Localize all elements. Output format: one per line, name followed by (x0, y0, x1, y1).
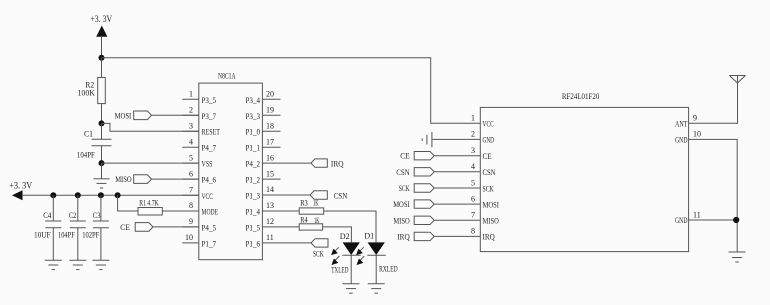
wire pin14 to CSN flag (262, 194, 310, 196)
C1 label (84, 130, 93, 139)
SCK label (313, 250, 324, 259)
svg-text:18: 18 (266, 121, 274, 130)
svg-text:IRQ: IRQ (331, 159, 344, 168)
svg-text:MODE: MODE (202, 208, 219, 217)
LED D1 (367, 243, 386, 284)
svg-text:P1_3: P1_3 (246, 192, 261, 201)
svg-text:P4_7: P4_7 (202, 144, 217, 153)
antenna E1 (729, 76, 745, 84)
net flag MOSI (RF) (414, 200, 480, 208)
RXLED label (379, 265, 398, 274)
U1 title N8C1A (218, 72, 236, 81)
svg-text:P1_0: P1_0 (246, 128, 261, 137)
svg-text:10: 10 (693, 130, 701, 139)
wire C1 to ground (101, 163, 103, 179)
svg-text:CSN: CSN (334, 191, 348, 200)
svg-text:P1_7: P1_7 (202, 239, 217, 248)
U2 right pin numbers (693, 114, 701, 220)
svg-text:RF24L01F20: RF24L01F20 (562, 92, 599, 101)
svg-text:P3_3: P3_3 (246, 112, 261, 121)
svg-text:P3_4: P3_4 (246, 96, 261, 105)
svg-text:MOSI: MOSI (115, 111, 132, 120)
svg-text:C3: C3 (93, 211, 101, 220)
svg-text:17: 17 (266, 137, 274, 146)
net flag IRQ (RF) (414, 232, 480, 240)
svg-text:11: 11 (693, 210, 701, 219)
capacitor C1 (92, 123, 112, 163)
wire R2 bottom (101, 104, 103, 124)
LED D2 (342, 243, 361, 284)
U2 left pin names (483, 120, 500, 242)
svg-text:D2: D2 (340, 232, 350, 241)
svg-text:MOSI: MOSI (393, 200, 410, 209)
wire junction to R2 (101, 58, 103, 78)
svg-text:7: 7 (189, 186, 193, 195)
C2 label (69, 211, 77, 220)
svg-text:9: 9 (693, 114, 697, 123)
svg-text:10: 10 (185, 233, 193, 242)
svg-text:4: 4 (189, 137, 193, 146)
wire R1 branch down (118, 195, 138, 211)
svg-text:1: 1 (471, 114, 475, 123)
TXLED label (331, 266, 348, 275)
svg-text:VCC: VCC (202, 192, 214, 201)
IRQ label (RF) (397, 232, 410, 241)
svg-text:7: 7 (471, 211, 475, 220)
svg-text:P1_5: P1_5 (246, 223, 261, 232)
node A junction top-left (99, 55, 105, 61)
svg-text:IRQ: IRQ (483, 233, 495, 242)
svg-text:RESET: RESET (202, 128, 221, 137)
U1 left pin numbers (185, 90, 193, 243)
U1 right pin stubs 20-11 (262, 99, 280, 179)
svg-text:MOSI: MOSI (483, 200, 500, 209)
MOSI label (115, 111, 132, 120)
MCU U1 N8C1A body (199, 83, 263, 260)
svg-text:C1: C1 (84, 130, 93, 139)
wire VSS pin5 (102, 162, 199, 164)
net flag IRQ (MCU) (311, 159, 327, 167)
svg-text:P4_6: P4_6 (202, 176, 217, 185)
svg-text:8: 8 (471, 227, 475, 236)
svg-text:4: 4 (471, 162, 475, 171)
U2 left pin numbers 1-8 (471, 114, 475, 236)
CE label (RF) (400, 152, 410, 161)
svg-text:1: 1 (189, 90, 193, 99)
svg-text:16: 16 (266, 153, 274, 162)
net flag MISO (MCU) (134, 175, 199, 184)
junction R1 branch (115, 192, 121, 198)
node C junction C1/VSS/gnd (99, 160, 105, 166)
power +3.3V bottom label (9, 181, 32, 191)
svg-text:P4_2: P4_2 (246, 160, 261, 169)
svg-text:TXLED: TXLED (331, 266, 348, 275)
net flag CE (RF) (414, 152, 480, 160)
junction pin11/rail (733, 217, 739, 223)
svg-text:3: 3 (189, 121, 193, 130)
svg-text:12: 12 (266, 217, 274, 226)
C3 value 102PF (82, 230, 100, 239)
svg-text:VSS: VSS (202, 160, 213, 169)
CSN label (334, 191, 348, 200)
svg-text:2: 2 (471, 130, 475, 139)
wire pin12 to R4 (262, 226, 299, 228)
wire pin13 to R3 (262, 210, 299, 212)
svg-text:104PF: 104PF (77, 151, 95, 160)
svg-text:P1_2: P1_2 (246, 176, 261, 185)
svg-text:8: 8 (189, 201, 193, 210)
svg-text:5: 5 (189, 153, 193, 162)
MOSI label (RF) (393, 200, 410, 209)
net flag CE (MCU) (135, 223, 199, 232)
RF module U2 RF24L01F20 body (480, 107, 688, 251)
CSN label (RF) (396, 168, 410, 177)
U2 title RF24L01F20 (562, 92, 599, 101)
svg-text:P1_1: P1_1 (246, 144, 261, 153)
ground under C2 (69, 260, 86, 269)
wire pin11 to SCK flag (262, 242, 311, 244)
ground under D1 (368, 284, 385, 293)
svg-text:SCK: SCK (399, 184, 410, 193)
svg-text:14: 14 (266, 185, 274, 194)
U1 left pin names (202, 96, 221, 249)
svg-text:IRQ: IRQ (397, 232, 410, 241)
U1 left pin stubs 1-10 (182, 99, 199, 243)
svg-text:1K: 1K (313, 199, 319, 208)
U2 right pin names (675, 120, 688, 226)
svg-text:CE: CE (120, 223, 130, 232)
MISO label (115, 175, 132, 184)
svg-text:VCC: VCC (483, 120, 494, 129)
svg-text:CSN: CSN (396, 168, 410, 177)
D2 label (340, 232, 350, 241)
sideways ground at RF pin2 (422, 132, 480, 147)
D1 label (364, 232, 374, 241)
svg-text:MISO: MISO (483, 217, 499, 226)
IRQ label (331, 159, 344, 168)
svg-text:6: 6 (471, 194, 475, 203)
svg-text:15: 15 (266, 169, 274, 178)
D1 emission arrows (357, 247, 365, 264)
power +3.3V top arrow symbol (97, 27, 107, 58)
svg-text:+3. 3V: +3. 3V (9, 181, 32, 191)
svg-text:1K: 1K (314, 216, 319, 225)
svg-text:P3_5: P3_5 (202, 96, 217, 105)
R3 label (300, 198, 308, 207)
svg-text:2: 2 (189, 106, 193, 115)
wire ANT pin9 to antenna (689, 83, 738, 123)
svg-text:CSN: CSN (483, 168, 496, 177)
wire +3.3V bottom rail to VCC pin7 (22, 194, 199, 196)
D2 emission arrows (332, 247, 340, 264)
svg-text:GND: GND (483, 136, 495, 145)
svg-text:11: 11 (266, 233, 274, 242)
resistor R4 (299, 224, 322, 230)
wire RESET jog to pin3 (102, 123, 199, 131)
net flag CSN (RF) (414, 168, 480, 176)
svg-text:20: 20 (266, 90, 274, 99)
resistor R3 (299, 208, 324, 214)
wire R1 to MODE pin8 (162, 210, 199, 212)
wire R4 to D2 (323, 227, 352, 242)
svg-text:100K: 100K (78, 89, 96, 98)
svg-text:102PF: 102PF (82, 230, 100, 239)
svg-text:13: 13 (266, 201, 274, 210)
ground under C3 (92, 260, 109, 269)
svg-text:3: 3 (471, 146, 475, 155)
net flag SCK (MCU) (311, 239, 328, 247)
capacitor C4 (45, 195, 61, 260)
svg-text:SCK: SCK (313, 250, 324, 259)
wire GND pin10 down right rail (689, 139, 738, 252)
junction C3 (98, 192, 104, 198)
svg-text:R4: R4 (300, 216, 307, 225)
svg-text:P1_6: P1_6 (246, 239, 261, 248)
CE label (120, 223, 130, 232)
R4 value 1K (314, 216, 319, 225)
svg-text:10UF: 10UF (34, 230, 51, 239)
svg-text:104PF: 104PF (58, 230, 75, 239)
wire GND pin11 to rail (689, 219, 738, 221)
junction C4 (50, 192, 56, 198)
svg-text:5: 5 (471, 178, 475, 187)
power +3.3V bottom arrow symbol (13, 191, 22, 199)
svg-text:P3_7: P3_7 (202, 112, 217, 121)
capacitor C3 (93, 195, 109, 260)
R1 label and value 4.7K (139, 199, 159, 208)
wire pin16 to IRQ flag (262, 162, 311, 164)
svg-text:GND: GND (675, 216, 688, 225)
R2 value 100K (78, 89, 96, 98)
svg-text:P4_5: P4_5 (202, 223, 217, 232)
net flag CSN (MCU) (310, 191, 327, 199)
C3 label (93, 211, 101, 220)
svg-text:P1_4: P1_4 (246, 208, 261, 217)
net flag MISO (RF) (414, 216, 480, 224)
svg-text:9: 9 (189, 217, 193, 226)
net flag SCK (RF) (414, 184, 480, 192)
node B junction R2/C1/RESET (99, 120, 105, 126)
C1 value 104PF (77, 151, 95, 160)
svg-text:D1: D1 (364, 232, 374, 241)
power +3.3V top label (90, 14, 112, 24)
C2 value 104PF (58, 230, 75, 239)
svg-text:RXLED: RXLED (379, 265, 398, 274)
U1 right pin numbers (266, 90, 274, 243)
wire R3 to D1 (324, 211, 376, 242)
ground bottom right (729, 252, 746, 262)
ground under D2 (343, 284, 360, 293)
SCK label (RF) (399, 184, 410, 193)
R3 value 1K (313, 199, 319, 208)
svg-text:+3. 3V: +3. 3V (90, 14, 112, 24)
svg-text:ANT: ANT (675, 120, 688, 129)
svg-text:R3: R3 (300, 198, 308, 207)
capacitor C2 (70, 195, 86, 260)
svg-text:CE: CE (400, 152, 410, 161)
svg-text:CE: CE (483, 152, 492, 161)
junction C2 (75, 192, 81, 198)
svg-text:MISO: MISO (393, 216, 409, 225)
svg-text:SCK: SCK (483, 184, 494, 193)
svg-text:MISO: MISO (115, 175, 132, 184)
resistor R2 (98, 77, 106, 103)
svg-text:C2: C2 (69, 211, 77, 220)
R2 label (85, 81, 94, 90)
svg-text:19: 19 (266, 106, 274, 115)
ground under C1 (94, 179, 110, 188)
C4 label (43, 211, 51, 220)
MISO label (RF) (393, 216, 409, 225)
ground under C4 (45, 260, 62, 269)
U1 right pin names (246, 96, 261, 249)
svg-text:C4: C4 (43, 211, 51, 220)
R4 label (300, 216, 307, 225)
resistor R1 (138, 208, 162, 216)
C4 value 10UF (34, 230, 51, 239)
wire top rail to RF VCC (102, 58, 481, 124)
svg-text:R1 4.7K: R1 4.7K (139, 199, 159, 208)
net flag MOSI (MCU) (134, 111, 199, 120)
svg-text:N8C1A: N8C1A (218, 72, 236, 81)
svg-text:6: 6 (189, 169, 193, 178)
svg-text:GND: GND (675, 136, 688, 145)
